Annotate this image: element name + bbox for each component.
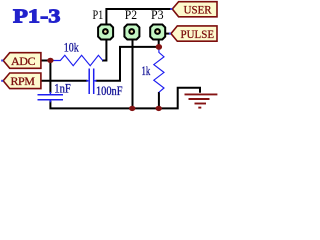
terminal flag USER <box>172 2 217 17</box>
junction dot 1k ground <box>156 106 162 111</box>
svg-text:P2: P2 <box>125 8 137 22</box>
wire top rail P1 to USER <box>106 9 171 25</box>
svg-text:1nF: 1nF <box>54 81 71 96</box>
svg-text:USER: USER <box>184 3 212 17</box>
junction dot P2 ground <box>129 106 135 111</box>
wire ADC to junction <box>41 60 49 62</box>
svg-text:P3: P3 <box>151 8 164 22</box>
resistor R2 1k <box>154 48 164 92</box>
svg-text:10k: 10k <box>64 40 79 55</box>
svg-text:P1: P1 <box>93 8 104 22</box>
terminal flag PULSE <box>171 26 217 41</box>
terminal flag RPM <box>3 73 41 89</box>
node tick USER tip <box>170 8 172 10</box>
capacitor C2 100nF <box>86 69 96 95</box>
svg-text:RPM: RPM <box>10 74 35 88</box>
svg-text:PULSE: PULSE <box>181 27 215 41</box>
svg-text:P1-3: P1-3 <box>13 6 61 27</box>
test point P3 <box>150 25 165 40</box>
wire P3 to PULSE <box>166 33 172 35</box>
wire P3 lead to node A <box>158 40 160 49</box>
wire junction down to 1nF <box>49 61 51 94</box>
wire P2 lead to ground rail <box>132 40 134 109</box>
node tick PULSE tip <box>169 33 171 35</box>
wire 1nF bottom to ground rail and ground <box>50 88 200 109</box>
wire RPM to 100nF <box>41 80 88 82</box>
test point P2 <box>124 25 139 40</box>
wire P1 lead down to 10k <box>102 40 106 61</box>
wire 100nF right up to node A <box>96 47 158 81</box>
resistor R1 10k <box>50 55 102 65</box>
node tick RPM tip <box>1 80 3 82</box>
terminal flag ADC <box>3 53 41 69</box>
wire 1k bottom lead <box>158 92 160 108</box>
junction dot ADC node <box>47 58 53 63</box>
svg-text:1k: 1k <box>142 63 151 78</box>
svg-text:ADC: ADC <box>11 54 36 68</box>
junction dot node A <box>156 44 162 50</box>
svg-text:100nF: 100nF <box>96 83 123 98</box>
node tick ADC tip <box>1 60 3 62</box>
ground <box>185 94 218 107</box>
test point P1 <box>98 25 113 40</box>
capacitor C1 1nF <box>38 92 64 103</box>
